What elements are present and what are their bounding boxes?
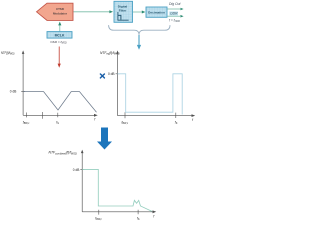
wire modulator to digital filter xyxy=(74,10,114,13)
svg-text:0 dB: 0 dB xyxy=(108,72,115,76)
svg-text:0 dB: 0 dB xyxy=(10,90,17,94)
svg-text:fBW,c: fBW,c xyxy=(23,120,30,125)
wire digital filter to decimation xyxy=(133,11,145,14)
plot 2 y-axis xyxy=(116,50,119,115)
block Decimation xyxy=(146,7,167,17)
plot 3 y-axis xyxy=(81,150,84,212)
svg-text:NTF(f)/fMOD: NTF(f)/fMOD xyxy=(1,51,15,56)
svg-text:Decimation: Decimation xyxy=(148,11,165,15)
plot 1 0 dB tick and label xyxy=(10,90,25,94)
svg-text:0 dB: 0 dB xyxy=(73,168,80,172)
svg-text:f = fODR: f = fODR xyxy=(169,18,180,23)
plot 3 x-axis xyxy=(82,210,156,218)
svg-text:fS: fS xyxy=(175,120,178,125)
plot 1 y-axis xyxy=(22,50,25,115)
svg-text:f: f xyxy=(153,215,155,219)
svg-text:fBW,c: fBW,c xyxy=(122,120,129,125)
svg-text:CTSD: CTSD xyxy=(56,7,64,11)
plot 2 0 dB tick and label xyxy=(108,72,120,76)
wire MCLK to modulator (up arrow) xyxy=(58,22,61,32)
plot 3 0 dB tick and label xyxy=(73,168,84,172)
plot 3 combined response curve xyxy=(82,169,152,211)
svg-text:Dig Out: Dig Out xyxy=(169,2,182,6)
svg-text:MCLK: MCLK xyxy=(55,33,65,37)
multiply sign between plots xyxy=(100,74,104,78)
svg-text:Filter: Filter xyxy=(119,8,127,12)
plot 1 label NTF(f)/f_MOD xyxy=(1,51,15,56)
brace under digital filter + decimation xyxy=(109,25,170,35)
svg-text:f: f xyxy=(94,118,96,122)
block MCLK xyxy=(47,32,72,38)
svg-text:fBW,c: fBW,c xyxy=(95,216,102,221)
wire ODR output arrow xyxy=(168,15,184,18)
block CTSD Modulator (pentagon) xyxy=(37,3,74,20)
svg-text:f: f xyxy=(192,118,194,122)
wire Dig Out output arrow xyxy=(168,8,184,11)
plot 1 x-axis xyxy=(23,114,98,122)
svg-text:ODR: ODR xyxy=(170,12,178,16)
plot 2 x ticks xyxy=(125,112,176,118)
svg-text:OSR = fMOD: OSR = fMOD xyxy=(50,40,67,45)
plot 3 x ticks xyxy=(99,210,138,215)
svg-text:NTFcombined(f)/fMOD: NTFcombined(f)/fMOD xyxy=(49,151,78,156)
big blue down arrow xyxy=(97,128,112,150)
plot 1 x ticks xyxy=(26,112,58,119)
arrow red, MCLK rate into NTF plot xyxy=(58,47,61,68)
arrow brace to NTF_eq plot xyxy=(137,35,141,50)
svg-text:fS: fS xyxy=(56,120,59,125)
plot 1 NTF curve xyxy=(23,92,96,113)
block Digital Filter xyxy=(114,1,133,22)
plot 2 brickwall filter curve xyxy=(118,74,183,115)
svg-text:Modulator: Modulator xyxy=(53,12,68,16)
svg-text:fS: fS xyxy=(137,216,140,221)
plot 2 x-axis xyxy=(118,114,196,122)
label ODR xyxy=(169,12,178,16)
